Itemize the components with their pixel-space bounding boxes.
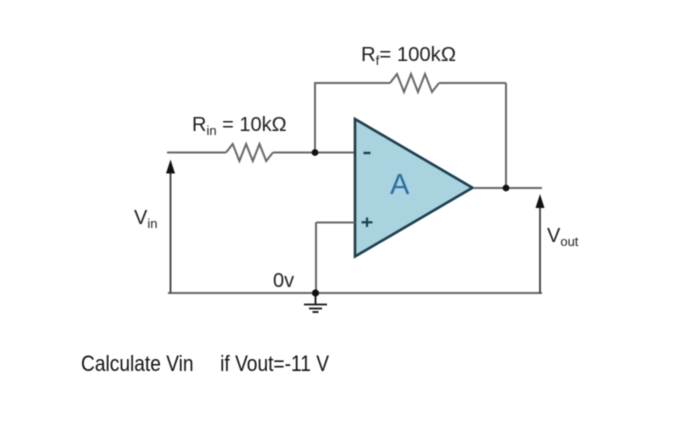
resistor Rf bbox=[390, 74, 439, 92]
label question text bbox=[81, 351, 329, 376]
label Rf = 100kΩ bbox=[361, 44, 456, 68]
op-amp U1 bbox=[355, 119, 473, 257]
svg-text:Calculate Vin if Vout=-11: Calculate Vin if Vout=-11 V bbox=[81, 351, 329, 376]
svg-text:Vout: Vout bbox=[547, 225, 579, 249]
op-amp minus pin label bbox=[364, 152, 371, 154]
op-amp plus pin label bbox=[362, 218, 373, 228]
resistor Rin bbox=[226, 144, 273, 161]
label Rin = 10kΩ bbox=[192, 114, 287, 138]
wire: non-inverting input horizontal bbox=[316, 222, 355, 224]
wire: feedback vertical left bbox=[314, 83, 316, 153]
node: output junction with feedback bbox=[503, 185, 510, 192]
svg-text:Rin = 10kΩ: Rin = 10kΩ bbox=[192, 114, 287, 138]
wire: bottom rail bbox=[168, 292, 542, 294]
label Vin bbox=[134, 207, 157, 231]
label 0v bbox=[273, 270, 294, 292]
ground bbox=[304, 293, 327, 312]
wire: output wire bbox=[473, 187, 542, 189]
wire: feedback vertical right bbox=[505, 83, 507, 188]
svg-text:Vin: Vin bbox=[134, 207, 157, 231]
arrow: Vin indicator bbox=[166, 160, 175, 294]
svg-text:Rf= 100kΩ: Rf= 100kΩ bbox=[361, 44, 456, 68]
wire: non-inverting input vertical to ground rail bbox=[315, 223, 317, 294]
wire: feedback top right segment bbox=[439, 82, 506, 84]
wire: input wire right segment to inverting input bbox=[273, 152, 355, 154]
wire: input wire left segment bbox=[167, 152, 226, 154]
node: junction of Rin and feedback at inverting input bbox=[312, 149, 319, 156]
wire: feedback top left segment bbox=[314, 82, 390, 84]
arrow: Vout indicator bbox=[536, 194, 545, 293]
label Vout bbox=[547, 225, 579, 249]
node: ground junction on bottom rail bbox=[312, 289, 319, 296]
svg-text:0v: 0v bbox=[273, 270, 294, 292]
svg-text:A: A bbox=[390, 169, 410, 201]
